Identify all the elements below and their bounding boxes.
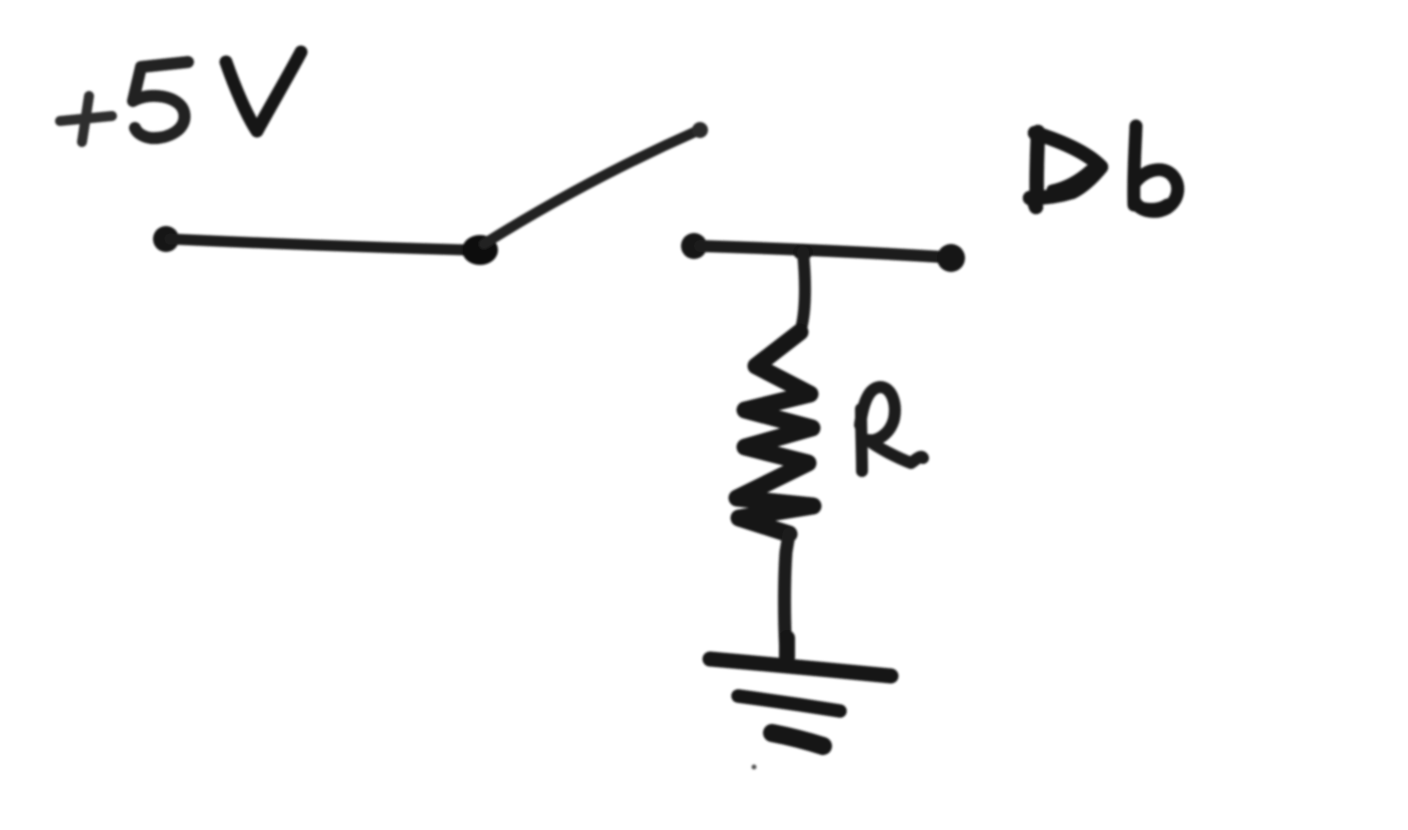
net label Db : letter b: [1134, 126, 1178, 211]
switch S1 lever (open contact): [484, 131, 697, 244]
net label +5V : plus sign: [60, 96, 112, 142]
node: Db wire right endpoint: [937, 244, 965, 272]
ground symbol: stray ink dot: [752, 765, 757, 770]
net label Db : b bowl inner weight: [1138, 203, 1167, 208]
net label +5V : digit 5: [133, 62, 188, 138]
ground symbol: middle bar: [738, 696, 840, 711]
net label Db : D bowl inner weight: [1052, 170, 1090, 190]
net label Db : letter D: [1030, 132, 1101, 207]
wire: throw terminal to Db endpoint: [700, 246, 942, 257]
node: switch throw terminal dot: [681, 233, 707, 259]
ground symbol: top bar: [710, 659, 891, 676]
ground symbol: bottom bar: [772, 733, 823, 746]
switch S1 pole junction blob: [462, 235, 498, 265]
wire: Db node junction down to resistor top: [800, 252, 805, 332]
junction blob at T of Db wire and resistor lead: [793, 244, 813, 260]
wire: resistor bottom lead to ground: [785, 534, 790, 654]
resistor bottom lead blob at ground: [779, 638, 795, 657]
resistor R zigzag body: [737, 332, 813, 534]
net label +5V : letter V: [226, 52, 301, 131]
node: +5V wire left endpoint: [153, 226, 179, 252]
wire: +5V endpoint to switch pole: [170, 239, 468, 250]
label R (resistor value label): [860, 387, 923, 471]
switch S1 lever tip blob: [692, 122, 708, 138]
